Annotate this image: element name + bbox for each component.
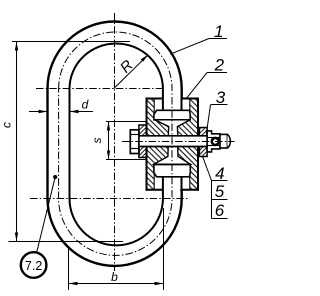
svg-text:7.2: 7.2 [25, 259, 42, 273]
svg-text:5: 5 [215, 182, 225, 201]
svg-text:4: 4 [215, 164, 224, 183]
svg-text:1: 1 [214, 22, 223, 41]
svg-text:6: 6 [215, 201, 225, 220]
svg-text:s: s [90, 138, 104, 144]
svg-text:d: d [82, 98, 89, 112]
svg-text:2: 2 [214, 55, 225, 74]
svg-text:b: b [111, 270, 118, 284]
svg-text:3: 3 [216, 88, 226, 107]
svg-text:c: c [0, 122, 14, 128]
